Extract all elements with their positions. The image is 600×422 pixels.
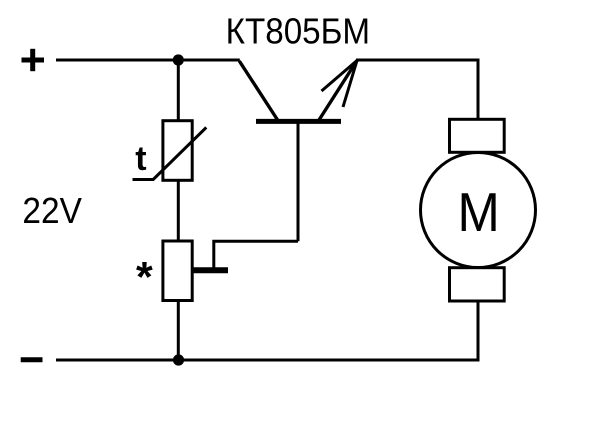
- supply terminal [21,357,43,362]
motor M1 top brush block [450,119,505,152]
emitter arrow barb 2 [343,61,357,108]
svg-text:22V: 22V [22,190,82,231]
transistor Q1 collector [239,61,277,120]
wire: emitter to motor [356,60,478,120]
wire: potentiometer to bottom rail [177,301,180,361]
wire: thermistor to potentiometer [177,180,180,241]
potentiometer wiper contact [194,267,229,273]
svg-text:КТ805БМ: КТ805БМ [226,11,371,52]
thermistor R1 body [163,121,192,181]
svg-text:t: t [135,140,146,178]
wire: bottom negative rail [56,359,480,362]
node: top junction [173,54,184,65]
wire: wiper to base horizontal [214,241,298,267]
transistor Q1 emitter [319,61,357,121]
motor M1 body [421,153,536,268]
transistor Q1 base bar [256,119,341,124]
wire: top positive rail [56,59,240,62]
thermistor strike (temperature symbol) [133,127,207,179]
emitter arrow barb 1 [322,61,358,92]
svg-text:M: M [457,181,499,243]
svg-text:*: * [136,253,153,301]
node: bottom junction [173,354,184,365]
motor M1 bottom brush block [450,268,505,301]
wire: motor to bottom rail [477,301,480,361]
potentiometer R2 body [163,241,192,301]
wire: thermistor top lead [177,60,180,121]
+ supply terminal [22,49,45,71]
wire: base lead [297,124,300,242]
